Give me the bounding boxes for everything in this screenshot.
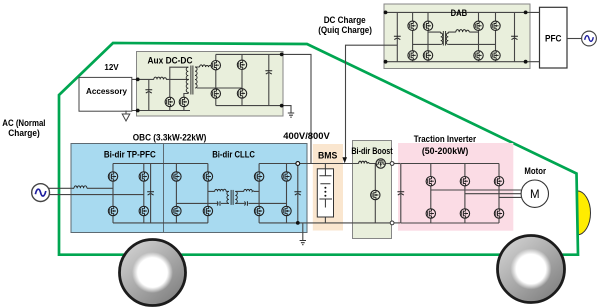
wire accessory to aux bottom [132, 110, 190, 112]
wire TP-PFC leg1 [112, 164, 114, 223]
Accessory box [79, 77, 132, 111]
transistor CLLC Q5 [254, 172, 263, 181]
left wheel hub [132, 252, 173, 293]
inductor OBC input [74, 186, 87, 188]
wire DAB leg1 [412, 12, 414, 61]
transistor CLLC Q2 [203, 172, 212, 181]
AC source DC-charger [582, 31, 597, 46]
transistor CLLC Q6 [282, 172, 291, 181]
svg-text:BMS: BMS [318, 151, 337, 161]
svg-text:Bi-dir CLLC: Bi-dir CLLC [212, 150, 255, 160]
wire aux out top to bus [282, 54, 311, 163]
transformer aux [186, 66, 197, 95]
wire DAB leg3 [478, 12, 480, 61]
transistor inverter Q3 [494, 177, 503, 186]
wire DAB leg4 [495, 12, 497, 61]
wire PFC to AC source [567, 38, 582, 40]
transistor inverter Q6 [494, 209, 503, 218]
svg-text:M: M [530, 189, 540, 201]
wire boost to output circle [385, 163, 390, 165]
DAB box [384, 4, 530, 69]
transformer DAB [441, 31, 449, 46]
transistor aux bridge Q4 [237, 60, 246, 69]
capacitor CLLC resonant right [245, 201, 248, 206]
capacitor CLLC resonant left [217, 201, 220, 206]
wire AC inductor to leg [87, 187, 113, 189]
transistor CLLC Q7 [254, 206, 263, 215]
svg-text:DC Charge: DC Charge [324, 15, 366, 25]
transistor inverter Q1 [426, 177, 435, 186]
inductor aux input [154, 77, 167, 79]
arrow DC feed into HV bus [342, 157, 347, 163]
node aux input top [136, 78, 140, 82]
node DAB top-right [524, 11, 528, 15]
wire aux bottom bus [216, 105, 282, 107]
wire DAB to PFC [526, 12, 540, 61]
transistor inverter Q4 [426, 209, 435, 218]
wire aux output cap rail [268, 54, 270, 105]
transistor boost high-side [376, 159, 385, 168]
wire aux out bottom to ground [282, 106, 291, 113]
svg-text:AC (Normal: AC (Normal [2, 118, 45, 128]
transistor TP-PFC Q2 [139, 172, 148, 181]
wire phase C [499, 196, 521, 198]
ground accessory chassis [122, 111, 130, 122]
wire CLLC resonant top left [208, 190, 229, 192]
node aux output top [280, 53, 284, 57]
transistor boost low-side [371, 190, 380, 199]
capacitor aux input [145, 90, 152, 93]
transistor inverter Q2 [460, 177, 469, 186]
transistor inverter Q5 [460, 209, 469, 218]
wire HV bottom bus to boost [298, 222, 353, 224]
svg-text:Accessory: Accessory [86, 86, 127, 96]
node OBC output top [296, 162, 300, 166]
transformer CLLC [227, 190, 237, 205]
PFC box [540, 7, 568, 68]
wire DC charge feed [346, 45, 398, 157]
capacitor DAB right link [511, 36, 518, 39]
capacitor DAB left link [394, 36, 401, 39]
transistor aux bridge Q5 [211, 89, 220, 98]
wire TP-PFC leg2 [143, 164, 145, 223]
wire DAB top bus [386, 11, 526, 13]
inductor CLLC resonant left [215, 189, 226, 191]
wire battery top stub [324, 164, 326, 169]
transistor DAB Q1 [408, 21, 417, 30]
wire CLLC right bottom bus [259, 222, 298, 224]
right wheel hub [511, 249, 552, 290]
wire DAB bottom bus [386, 61, 526, 63]
wire CLLC right top bus [259, 163, 298, 165]
svg-text:Bi-dir Boost: Bi-dir Boost [351, 146, 392, 156]
wire aux input top [166, 78, 189, 80]
Bi-dir Boost box [353, 141, 392, 239]
wire inverter left rail [400, 164, 402, 224]
wire aux primary bottom [184, 94, 188, 98]
transistor DAB Q2 [423, 21, 432, 30]
headlight [577, 191, 591, 235]
AC source normal charge [32, 184, 50, 202]
capacitor aux output [265, 71, 272, 74]
inductor aux secondary [200, 65, 212, 67]
wire accessory to aux top [132, 78, 154, 80]
node aux input bottom [136, 109, 140, 113]
svg-text:Bi-dir TP-PFC: Bi-dir TP-PFC [104, 150, 156, 160]
transistor DAB Q8 [491, 51, 500, 60]
wire inverter leg3 [498, 164, 500, 224]
wire aux input cap rail [148, 79, 150, 110]
OBC section divider [163, 144, 165, 233]
wire DAB left cap rail [396, 12, 398, 61]
transistor aux bridge Q6 [237, 89, 246, 98]
svg-text:PFC: PFC [545, 33, 562, 43]
transistor CLLC Q1 [172, 172, 181, 181]
transistor CLLC Q4 [203, 206, 212, 215]
capacitor inverter link [397, 192, 404, 195]
capacitor TP-PFC link [147, 192, 154, 195]
wire OBC DC-link top bus [113, 163, 208, 165]
battery pack symbol [317, 169, 333, 217]
wire CLLC leg4 [286, 164, 288, 223]
svg-text:Charge): Charge) [8, 128, 40, 138]
wire OBC ground stub [302, 223, 304, 240]
wire aux mosfet stubs to rail [170, 107, 184, 111]
wire boost to inverter top [394, 163, 400, 165]
Traction inverter box [398, 143, 513, 231]
wire DAB bridge to transformer [413, 32, 496, 44]
wire aux bridge leg1 [215, 54, 217, 105]
left wheel [120, 240, 186, 306]
wire CLLC resonant bottom right [235, 202, 286, 204]
wire boost to inverter bottom [394, 222, 400, 224]
inductor CLLC resonant right [244, 189, 254, 191]
OBC box [71, 144, 307, 233]
wire DAB leg2 [427, 12, 429, 61]
wire aux top bus [216, 53, 282, 55]
wire inverter leg2 [464, 164, 466, 224]
transistor aux primary Q2 [179, 97, 188, 106]
wire AC to OBC top [49, 187, 75, 189]
node DAB bottom-right [524, 60, 528, 64]
transistor DAB Q7 [474, 51, 483, 60]
wire boost input [353, 163, 377, 165]
svg-text:Aux DC-DC: Aux DC-DC [148, 56, 193, 66]
transistor DAB Q3 [408, 51, 417, 60]
wire inverter top bus [401, 163, 499, 165]
wire boost shunt leg [374, 164, 376, 223]
wire aux bridge leg2 [241, 54, 243, 105]
svg-text:(Quiq Charge): (Quiq Charge) [318, 25, 372, 35]
wire aux primary top [170, 67, 189, 97]
wire CLLC resonant bottom left [176, 202, 229, 204]
svg-text:DAB: DAB [451, 8, 468, 18]
wire phase A [431, 189, 521, 191]
node DAB top-left [384, 11, 388, 15]
right wheel [498, 236, 565, 303]
svg-text:Motor: Motor [524, 166, 546, 176]
node DAB bottom-left [384, 60, 388, 64]
svg-text:(50-200kW): (50-200kW) [422, 146, 469, 156]
wire phase B [465, 193, 521, 195]
inductor boost [359, 161, 370, 163]
transistor CLLC Q3 [172, 206, 181, 215]
car body outline [59, 43, 578, 255]
wire AC to OBC bottom [49, 194, 144, 196]
wire HV top bus to boost [298, 163, 353, 165]
transistor TP-PFC Q4 [139, 206, 148, 215]
wire CLLC leg2 [207, 164, 209, 223]
ground aux output [288, 113, 294, 117]
transistor TP-PFC Q1 [108, 172, 117, 181]
wire CLLC output rail [297, 164, 299, 223]
transistor CLLC Q8 [282, 206, 291, 215]
wire OBC DC-link bottom bus [113, 222, 208, 224]
wire aux secondary bottom [197, 87, 242, 89]
wire battery bottom stub [324, 217, 326, 223]
wire inverter leg1 [430, 164, 432, 224]
transistor DAB Q4 [423, 51, 432, 60]
node aux output bottom [280, 104, 284, 108]
battery dots [324, 187, 326, 197]
wire inverter bottom bus [401, 222, 499, 224]
node OBC output bottom [296, 221, 300, 225]
transistor TP-PFC Q3 [108, 206, 117, 215]
wire CLLC leg1 [175, 164, 177, 223]
svg-text:Traction Inverter: Traction Inverter [414, 134, 477, 144]
wire aux secondary top [195, 66, 216, 68]
wire DAB right cap rail [514, 12, 516, 61]
BMS box [313, 144, 343, 231]
transistor DAB Q5 [474, 21, 483, 30]
wire CLLC resonant top right [235, 190, 259, 192]
node boost output bottom [390, 221, 394, 225]
capacitor CLLC output link [294, 192, 301, 195]
Aux DC-DC box [137, 52, 284, 117]
wire CLLC leg3 [258, 164, 260, 223]
transistor DAB Q6 [491, 21, 500, 30]
ground OBC link [300, 241, 306, 245]
svg-text:12V: 12V [104, 62, 119, 72]
node boost output top [390, 162, 394, 166]
svg-text:OBC (3.3kW-22kW): OBC (3.3kW-22kW) [133, 133, 207, 143]
inductor DAB series [456, 30, 469, 33]
wire boost bottom [353, 222, 391, 224]
transistor aux primary Q1 [165, 97, 174, 106]
svg-text:400V/800V: 400V/800V [283, 131, 330, 141]
wire TP-PFC cap rail [150, 164, 152, 223]
motor M [521, 180, 548, 207]
transistor aux bridge Q3 [211, 60, 220, 69]
